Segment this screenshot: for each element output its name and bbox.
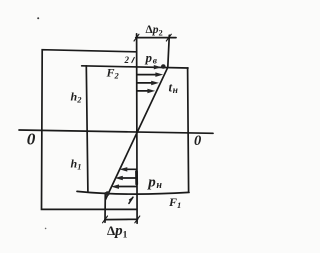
dim slash left (delta-p2) xyxy=(134,34,139,41)
pressure arrow shaft (zone 1, row 2) xyxy=(121,177,137,179)
node dot 2 (top of diagonal) xyxy=(161,64,166,69)
svg-text:h2: h2 xyxy=(71,90,83,105)
right boundary of pressure diagram xyxy=(188,68,189,192)
pressure diagram diagonal xyxy=(106,67,168,199)
dim delta-p2 right extension tick xyxy=(168,35,170,67)
svg-text:Δp2: Δp2 xyxy=(146,24,163,38)
axis O-O horizontal line xyxy=(19,130,213,133)
arrowhead (zone 1, row 1) xyxy=(119,167,127,172)
svg-text:F1: F1 xyxy=(168,195,181,210)
label point 1 xyxy=(129,197,133,203)
arrowhead (zone 1, row 3) xyxy=(111,184,119,189)
dim slash right (delta-p1) xyxy=(135,216,140,223)
arrowhead (zone 2, row 3) xyxy=(151,81,159,86)
svg-text:F2: F2 xyxy=(106,66,120,81)
pressure arrow shaft (zone 2, row 3) xyxy=(137,82,152,84)
svg-text:2: 2 xyxy=(124,55,130,65)
svg-text:0: 0 xyxy=(27,129,36,148)
svg-text:0: 0 xyxy=(194,133,201,149)
pressure arrow shaft (zone 2, row 2) xyxy=(137,74,157,76)
h dimension vertical line xyxy=(86,66,88,192)
level line 1 (lower piston face) xyxy=(77,191,189,194)
node dot 1 (bottom of diagonal) xyxy=(105,191,110,196)
dim delta-p1 left extension tick xyxy=(104,193,106,222)
arrowhead p_v (level 2) xyxy=(154,65,162,69)
pressure arrow shaft (zone 1, row 3) xyxy=(116,186,137,188)
cylinder outline (top, left, bottom walls) xyxy=(42,50,137,210)
dim line delta-p2 xyxy=(136,37,176,39)
pressure arrow shaft (zone 1, row 1) xyxy=(125,168,137,170)
level line 2 (upper piston face) xyxy=(82,66,188,68)
ink blob on center line xyxy=(135,172,138,185)
dim slash right (delta-p2) xyxy=(166,34,171,41)
svg-text:pн: pн xyxy=(146,174,162,191)
slash tick at point 2 xyxy=(132,58,135,63)
arrowhead (zone 1, row 2) xyxy=(115,176,123,181)
svg-text:tн: tн xyxy=(169,79,178,96)
svg-text:Δp1: Δp1 xyxy=(107,223,128,241)
center line (piston rod axis) xyxy=(136,34,139,224)
dim line delta-p1 xyxy=(105,218,138,220)
svg-text:h1: h1 xyxy=(71,157,82,172)
paper speck top left xyxy=(37,17,39,19)
pressure arrow shaft (zone 2, row 4) xyxy=(137,90,148,92)
arrowhead (zone 2, row 2) xyxy=(155,72,163,77)
dim slash left (delta-p1) xyxy=(103,216,108,223)
paper speck bottom left xyxy=(45,228,47,230)
arrowhead (zone 2, row 4) xyxy=(147,89,155,94)
svg-text:pв: pв xyxy=(145,50,158,67)
